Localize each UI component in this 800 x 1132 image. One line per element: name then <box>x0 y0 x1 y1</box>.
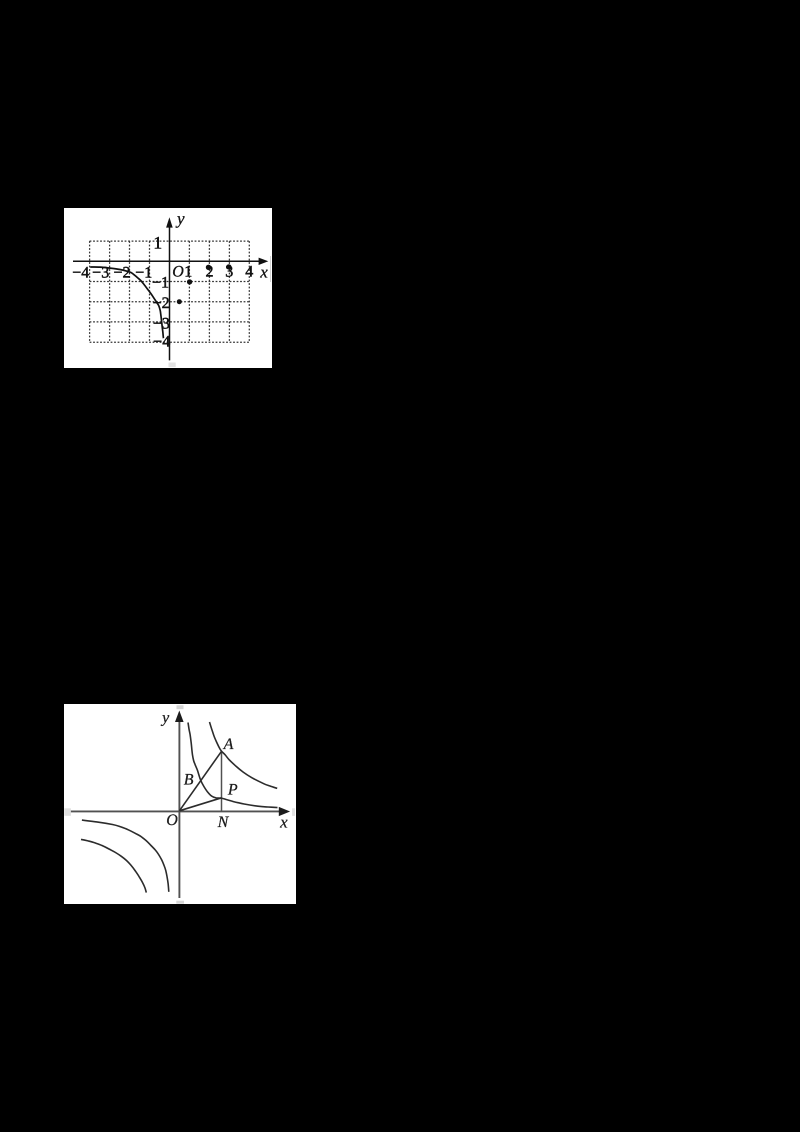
y-axis <box>178 719 180 898</box>
y-axis <box>169 223 171 360</box>
outer hyperbola Q1 branch (through A) <box>210 722 278 788</box>
svg-text:1: 1 <box>184 264 192 281</box>
svg-text:y: y <box>175 209 185 228</box>
svg-text:−1: −1 <box>152 275 169 292</box>
line OA <box>179 751 221 811</box>
svg-text:x: x <box>259 263 268 282</box>
outer hyperbola Q3 branch <box>81 839 146 892</box>
svg-text:B: B <box>184 772 194 789</box>
resize handle left-middle panel 2 <box>64 808 71 816</box>
svg-text:−4: −4 <box>153 333 170 350</box>
svg-text:O: O <box>172 263 184 280</box>
resize handle right-middle panel 2 <box>292 808 295 816</box>
x-axis <box>73 260 260 262</box>
grid vertical dashed lines <box>89 241 91 342</box>
svg-text:2: 2 <box>206 264 214 281</box>
curve y=1/x third-quadrant branch <box>90 267 163 338</box>
dot (0.5,-2) <box>177 299 182 304</box>
resize handle bottom-center panel 1 <box>169 363 176 368</box>
dot (1,-1) <box>187 279 192 284</box>
svg-text:−1: −1 <box>135 265 152 282</box>
resize handle bottom-center panel 2 <box>176 901 184 904</box>
y-axis arrowhead <box>175 711 184 723</box>
grid horizontal dashed lines <box>90 240 250 242</box>
svg-text:−3: −3 <box>92 265 109 282</box>
y-axis arrowhead <box>166 217 173 227</box>
svg-text:x: x <box>279 812 288 831</box>
panel 1 white background <box>64 208 272 368</box>
inner hyperbola Q3 branch <box>82 820 169 892</box>
segment AN <box>221 751 223 811</box>
line OP <box>179 798 221 811</box>
svg-text:A: A <box>223 736 234 753</box>
svg-text:−2: −2 <box>113 265 130 282</box>
svg-text:O: O <box>166 812 178 829</box>
svg-text:−4: −4 <box>72 265 89 282</box>
dot above label 2 <box>206 265 211 270</box>
x-axis <box>70 810 281 812</box>
x-axis arrowhead <box>279 807 290 816</box>
resize handle top-center panel 2 <box>177 705 184 709</box>
faint right streak panel 1 <box>269 256 272 282</box>
svg-text:−2: −2 <box>153 295 170 312</box>
svg-text:1: 1 <box>153 233 162 253</box>
dot above label 3 <box>226 264 231 269</box>
svg-text:3: 3 <box>225 264 233 281</box>
svg-text:P: P <box>227 782 238 799</box>
svg-text:N: N <box>217 814 230 831</box>
svg-text:4: 4 <box>245 264 253 281</box>
inner hyperbola Q1 branch (through B and P) <box>188 723 278 808</box>
svg-text:−3: −3 <box>153 315 170 332</box>
panel 2 white background <box>64 704 296 904</box>
x-axis arrowhead <box>259 258 269 265</box>
svg-text:y: y <box>160 710 170 727</box>
